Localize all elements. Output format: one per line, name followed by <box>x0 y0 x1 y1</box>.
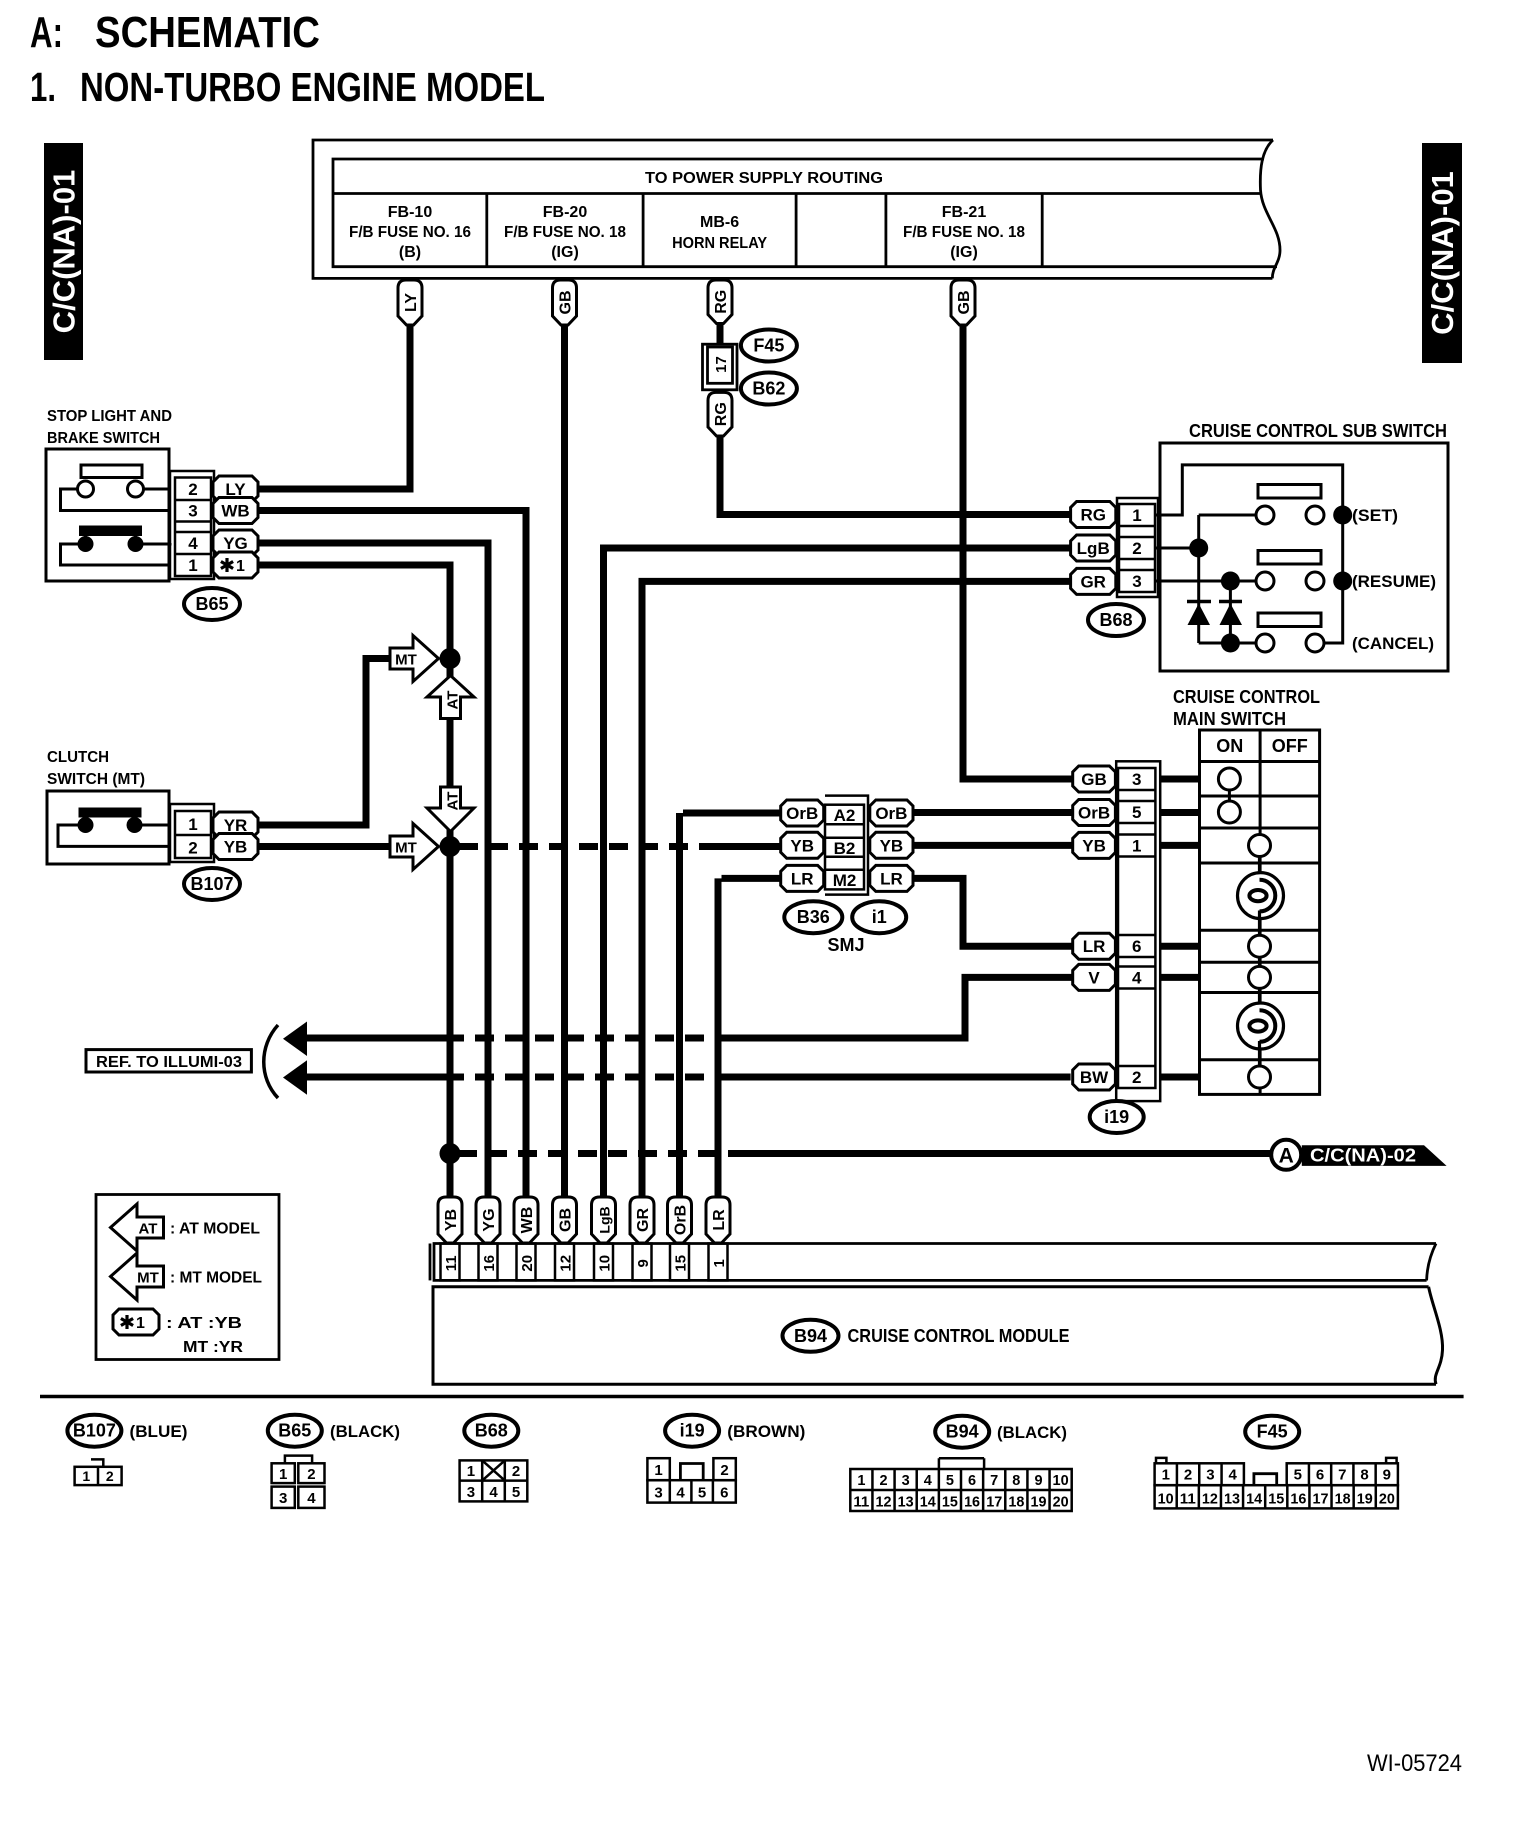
brake switch element <box>61 526 171 566</box>
svg-text:3: 3 <box>654 1485 662 1502</box>
svg-text:: MT MODEL: : MT MODEL <box>170 1270 262 1287</box>
svg-text:1: 1 <box>1132 837 1141 856</box>
svg-text:12: 12 <box>558 1255 575 1272</box>
svg-text:C/C(NA)-01: C/C(NA)-01 <box>47 170 82 334</box>
SMJ joint connector bracket <box>825 796 868 895</box>
svg-text:SWITCH (MT): SWITCH (MT) <box>47 771 145 788</box>
label STOP LIGHT AND BRAKE SWITCH <box>47 408 172 447</box>
connector i19 oval (BROWN) <box>665 1415 805 1447</box>
stop light and brake switch S1 box <box>46 449 169 581</box>
svg-text:13: 13 <box>1224 1492 1240 1508</box>
svg-text:RG: RG <box>713 402 730 426</box>
svg-text:17: 17 <box>986 1495 1002 1511</box>
svg-text:19: 19 <box>1030 1495 1046 1511</box>
svg-text:12: 12 <box>1202 1492 1218 1508</box>
svg-text:MAIN SWITCH: MAIN SWITCH <box>1173 709 1286 729</box>
svg-text:B68: B68 <box>1099 610 1132 630</box>
SET switch contacts <box>1199 485 1398 526</box>
main switch table frame <box>1200 730 1320 1094</box>
svg-text:10: 10 <box>1158 1492 1174 1508</box>
connector B94 oval (module) <box>783 1320 839 1352</box>
main switch contact row LR <box>1249 911 1271 967</box>
svg-text:WB: WB <box>519 1207 536 1234</box>
wire tag YG at B65 pin 4 (trunk to module pin 16) <box>213 530 492 1199</box>
right page banner C/C(NA)-01 <box>1422 143 1462 363</box>
arrow MT lower (MT model) <box>390 824 439 870</box>
connector B107 pin block <box>170 804 214 862</box>
svg-text:: AT MODEL: : AT MODEL <box>170 1221 260 1238</box>
wire tag LR right of SMJ to main switch pin 6 <box>870 865 1073 946</box>
wire YB to C/C(NA)-02 <box>440 1143 1271 1164</box>
svg-text:MT: MT <box>137 1270 159 1287</box>
svg-text:B107: B107 <box>190 874 233 894</box>
footer WI-05724 <box>1367 1750 1462 1777</box>
connector B94 pin layout <box>850 1458 1071 1511</box>
svg-text:YB: YB <box>443 1209 460 1231</box>
fuse cell FB-10 F/B FUSE NO. 16 (B) <box>349 204 471 261</box>
svg-text:GB: GB <box>558 291 575 315</box>
label CRUISE CONTROL SUB SWITCH <box>1189 421 1447 441</box>
svg-text:2: 2 <box>879 1473 887 1489</box>
svg-text:LgB: LgB <box>597 1206 613 1233</box>
svg-text:9: 9 <box>1034 1473 1042 1489</box>
svg-text:20: 20 <box>519 1255 536 1272</box>
wire tag WB at B65 pin 3 (trunk to module pin 20) <box>213 498 530 1200</box>
svg-text:2: 2 <box>512 1463 520 1480</box>
power supply routing box frame <box>313 140 1280 278</box>
svg-text:4: 4 <box>188 534 198 553</box>
svg-text:11: 11 <box>1180 1492 1196 1508</box>
wire RG from MB-6 horn relay <box>708 280 732 345</box>
node REF. TO ILLUMI-03 <box>86 1025 278 1098</box>
svg-text:YB: YB <box>1082 836 1106 855</box>
svg-text:MB-6: MB-6 <box>700 214 739 231</box>
module pin 10 (LgB) tag and cell <box>592 1197 616 1280</box>
svg-text:ON: ON <box>1216 736 1243 756</box>
indicator lamp upper <box>1238 873 1284 919</box>
connector F45 pin layout <box>1155 1458 1398 1509</box>
svg-text:4: 4 <box>307 1490 316 1507</box>
connector B68 oval <box>464 1415 518 1447</box>
connector B107 oval <box>184 868 240 900</box>
svg-text:2: 2 <box>1132 1068 1141 1087</box>
connector i19 pin layout <box>647 1458 735 1502</box>
svg-text:(SET): (SET) <box>1352 506 1398 525</box>
label SMJ <box>827 935 864 955</box>
main switch contact row BW <box>1249 1041 1271 1088</box>
wire tag OrB left of SMJ (trunk to module pin 15) <box>680 800 824 1199</box>
wire tag OrB right of SMJ to main switch pin 5 <box>870 800 1073 826</box>
module pin strip <box>430 1244 1436 1281</box>
connector i19 oval <box>1090 1101 1144 1133</box>
svg-text:2: 2 <box>188 839 197 858</box>
svg-text:17: 17 <box>1312 1492 1328 1508</box>
svg-text:20: 20 <box>1379 1492 1395 1508</box>
wire tag *1 at B65 pin 1 (trunk to module pin 11) <box>213 552 454 1199</box>
svg-text:LR: LR <box>1083 937 1106 956</box>
svg-text:16: 16 <box>1290 1492 1306 1508</box>
svg-text:3: 3 <box>902 1473 910 1489</box>
svg-text:4: 4 <box>1132 969 1142 988</box>
wire tag BW at i19 pin 2 <box>1073 1064 1200 1090</box>
svg-text:YG: YG <box>481 1208 498 1231</box>
svg-text:5: 5 <box>1294 1467 1302 1484</box>
svg-text:6: 6 <box>1132 937 1141 956</box>
svg-text:1: 1 <box>188 815 197 834</box>
main switch contact row V <box>1249 966 1271 1011</box>
label CRUISE CONTROL MAIN SWITCH <box>1173 687 1320 729</box>
svg-text:5: 5 <box>512 1484 520 1501</box>
svg-text:CRUISE CONTROL SUB SWITCH: CRUISE CONTROL SUB SWITCH <box>1189 421 1447 441</box>
svg-text:5: 5 <box>946 1473 954 1489</box>
wire tag YR at B107 pin 1 <box>213 659 391 839</box>
connector B68 pin block <box>1117 498 1158 597</box>
module pin 16 (YG) tag and cell <box>476 1197 500 1280</box>
svg-text:B2: B2 <box>834 839 856 858</box>
svg-text:SCHEMATIC: SCHEMATIC <box>95 8 320 57</box>
svg-text:3: 3 <box>279 1490 287 1507</box>
wire tag YB right of SMJ to main switch pin 1 <box>870 832 1073 858</box>
connector label B62 oval <box>741 373 797 405</box>
svg-text:1: 1 <box>82 1468 90 1484</box>
svg-text:GB: GB <box>558 1208 575 1232</box>
svg-text:15: 15 <box>1268 1492 1284 1508</box>
svg-text:7: 7 <box>1338 1467 1346 1484</box>
svg-text:MT: MT <box>395 840 417 857</box>
svg-text:CRUISE CONTROL: CRUISE CONTROL <box>1173 687 1320 707</box>
clutch switch S2 box <box>47 791 169 864</box>
svg-text:B107: B107 <box>73 1421 116 1441</box>
connector B68 oval <box>1088 604 1144 636</box>
svg-text:9: 9 <box>635 1259 652 1267</box>
svg-text:19: 19 <box>1357 1492 1373 1508</box>
wire GB from FB-21 to main switch pin 3 <box>951 280 1073 779</box>
svg-text:OrB: OrB <box>1078 804 1110 823</box>
svg-text:HORN RELAY: HORN RELAY <box>672 235 767 252</box>
svg-text:17: 17 <box>713 356 730 373</box>
legend tag *1 : AT:YB MT:YR <box>113 1309 243 1356</box>
cruise control module box <box>433 1287 1443 1384</box>
svg-text:9: 9 <box>1383 1467 1391 1484</box>
diode D2 <box>1219 602 1242 626</box>
svg-text:AT: AT <box>139 1221 158 1238</box>
svg-text:14: 14 <box>920 1495 936 1511</box>
svg-text:MT :YR: MT :YR <box>183 1339 243 1356</box>
svg-text:B65: B65 <box>278 1421 311 1441</box>
wire tag LgB at B68 pin 2 (trunk to module pin 10) <box>600 535 1116 1199</box>
svg-text:(BLUE): (BLUE) <box>130 1422 188 1441</box>
svg-text:6: 6 <box>1316 1467 1324 1484</box>
connector B94 oval (BLACK) <box>935 1416 1067 1448</box>
svg-text:18: 18 <box>1335 1492 1351 1508</box>
connector B65 oval (BLACK) <box>268 1415 400 1447</box>
arrow AT lower (AT model) <box>427 787 474 832</box>
svg-text:(B): (B) <box>399 244 421 261</box>
svg-text:4: 4 <box>676 1485 685 1502</box>
svg-text:B36: B36 <box>797 907 830 927</box>
connector i19 pin block <box>1116 761 1160 1101</box>
svg-text:OrB: OrB <box>786 804 818 823</box>
connector B65 oval <box>184 588 240 620</box>
wire tag YB left of SMJ <box>781 832 824 858</box>
arrow AT upper (AT model) <box>427 676 474 719</box>
svg-text:B94: B94 <box>946 1422 979 1442</box>
svg-text:10: 10 <box>1053 1473 1069 1489</box>
svg-text:CLUTCH: CLUTCH <box>47 749 109 766</box>
wire tag RG at B68 pin 1 <box>1071 502 1116 528</box>
svg-text:OFF: OFF <box>1272 736 1308 756</box>
svg-text:YB: YB <box>880 836 904 855</box>
wire RG below fuse to sub switch pin 1 <box>708 389 1071 515</box>
sub switch rail from pin 3 (GR) <box>1155 572 1256 644</box>
svg-text:GB: GB <box>1081 770 1107 789</box>
svg-text:GR: GR <box>635 1208 652 1232</box>
main switch contact row YB <box>1249 835 1271 882</box>
svg-text:YB: YB <box>790 836 814 855</box>
svg-text:7: 7 <box>990 1473 998 1489</box>
junction node (YR/*1 wire) <box>440 648 461 669</box>
wire LY from FB-10 <box>258 280 422 493</box>
svg-text:B65: B65 <box>195 594 228 614</box>
fuse cell FB-21 F/B FUSE NO. 18 (IG) <box>903 204 1025 261</box>
svg-text:MT: MT <box>395 652 417 669</box>
svg-text:V: V <box>1088 968 1100 987</box>
svg-text:3: 3 <box>1206 1467 1214 1484</box>
wire tag V at i19 pin 4 <box>1073 964 1200 990</box>
module pin 9 (GR) tag and cell <box>630 1197 654 1280</box>
svg-text:20: 20 <box>1053 1495 1069 1511</box>
svg-text:6: 6 <box>968 1473 976 1489</box>
svg-text:15: 15 <box>673 1255 690 1272</box>
svg-text:12: 12 <box>876 1495 892 1511</box>
svg-text:GR: GR <box>1080 572 1106 591</box>
svg-text:1: 1 <box>1162 1467 1170 1484</box>
legend box <box>96 1195 279 1360</box>
module pin 20 (WB) tag and cell <box>514 1197 538 1280</box>
svg-text:18: 18 <box>1008 1495 1024 1511</box>
svg-text:1: 1 <box>1132 506 1141 525</box>
svg-text:4: 4 <box>1229 1467 1238 1484</box>
svg-text:3: 3 <box>188 502 197 521</box>
arrow MT upper (MT model) <box>390 636 439 682</box>
svg-text:FB-10: FB-10 <box>388 204 433 221</box>
legend arrow MT : MT MODEL <box>111 1253 263 1300</box>
svg-text:GB: GB <box>956 291 973 315</box>
svg-text:2: 2 <box>106 1468 114 1484</box>
connector B36 oval <box>784 901 842 933</box>
wire tag OrB at i19 pin 5 <box>1073 800 1200 826</box>
svg-text:A2: A2 <box>834 806 856 825</box>
connector B65 pin block <box>170 471 214 579</box>
wire tag LR at i19 pin 6 <box>1073 933 1200 959</box>
svg-text:OrB: OrB <box>673 1205 690 1235</box>
module pin 12 (GB) tag and cell <box>553 1197 577 1280</box>
svg-text:F/B FUSE NO. 18: F/B FUSE NO. 18 <box>903 224 1025 241</box>
svg-text:6: 6 <box>720 1485 728 1502</box>
svg-text:15: 15 <box>942 1495 958 1511</box>
svg-text:OrB: OrB <box>875 804 907 823</box>
label TO POWER SUPPLY ROUTING <box>645 170 883 187</box>
svg-text:(IG): (IG) <box>950 244 978 261</box>
svg-text:8: 8 <box>1012 1473 1020 1489</box>
svg-text:i19: i19 <box>680 1421 705 1441</box>
svg-text:C/C(NA)-01: C/C(NA)-01 <box>1425 171 1460 335</box>
module pin 15 (OrB) tag and cell <box>668 1197 692 1280</box>
stop light switch element <box>61 465 171 511</box>
off-page connector A C/C(NA)-02 <box>1271 1140 1446 1170</box>
svg-text:FB-20: FB-20 <box>543 204 588 221</box>
svg-text:YB: YB <box>224 838 248 857</box>
svg-text:4: 4 <box>924 1473 932 1489</box>
svg-text:LR: LR <box>711 1209 728 1231</box>
svg-text:(BLACK): (BLACK) <box>330 1422 400 1441</box>
legend arrow AT : AT MODEL <box>111 1204 261 1251</box>
wire tag YB at i19 pin 1 <box>1073 832 1200 858</box>
clutch switch element <box>58 808 170 847</box>
svg-text:1: 1 <box>654 1462 662 1479</box>
svg-text:BW: BW <box>1080 1068 1109 1087</box>
svg-text:1: 1 <box>188 556 197 575</box>
connector B107 pin layout <box>75 1459 122 1485</box>
wire tag GB at i19 pin 3 <box>1073 766 1200 792</box>
svg-text:F45: F45 <box>753 336 784 356</box>
svg-text:AT: AT <box>445 792 462 811</box>
cruise control sub switch box <box>1160 443 1448 671</box>
svg-text:B68: B68 <box>475 1421 508 1441</box>
svg-text:C/C(NA)-02: C/C(NA)-02 <box>1310 1146 1416 1166</box>
svg-text:1: 1 <box>711 1259 728 1267</box>
wire GB from FB-20 (trunk to module pin 12) <box>553 280 577 1199</box>
title: A: SCHEMATIC <box>30 8 320 57</box>
svg-text:YG: YG <box>223 534 248 553</box>
svg-text:NON-TURBO ENGINE MODEL: NON-TURBO ENGINE MODEL <box>80 64 545 110</box>
svg-text:3: 3 <box>1132 770 1141 789</box>
svg-text:2: 2 <box>1132 539 1141 558</box>
svg-text:(CANCEL): (CANCEL) <box>1352 634 1434 653</box>
svg-text:FB-21: FB-21 <box>942 204 987 221</box>
sub switch left rail from pin 2 (LgB) <box>1155 515 1208 643</box>
svg-text:BRAKE SWITCH: BRAKE SWITCH <box>47 430 160 447</box>
cell MB-6 HORN RELAY <box>672 214 767 252</box>
module pin 11 (YB) tag and cell <box>438 1197 462 1280</box>
svg-text:: AT :YB: : AT :YB <box>166 1315 242 1332</box>
svg-text:RG: RG <box>1080 506 1106 525</box>
svg-text:AT: AT <box>445 691 462 710</box>
RESUME switch contacts <box>1256 551 1436 592</box>
svg-text:i1: i1 <box>872 907 887 927</box>
connector B68 pin layout <box>460 1460 528 1501</box>
sub switch bottom rail <box>1199 634 1256 653</box>
svg-text:LR: LR <box>880 869 903 888</box>
svg-text:4: 4 <box>489 1484 498 1501</box>
svg-text:WI-05724: WI-05724 <box>1367 1750 1462 1777</box>
separator line <box>40 1395 1464 1399</box>
svg-text:LgB: LgB <box>1077 539 1110 558</box>
svg-text:2: 2 <box>307 1466 315 1483</box>
CANCEL switch contacts <box>1256 613 1434 653</box>
svg-text:STOP LIGHT AND: STOP LIGHT AND <box>47 408 172 425</box>
dashed wire YB from junction to SMJ <box>450 843 781 850</box>
fuse cell FB-20 F/B FUSE NO. 18 (IG) <box>504 204 626 261</box>
indicator lamp lower <box>1238 1003 1284 1049</box>
svg-text:CRUISE CONTROL MODULE: CRUISE CONTROL MODULE <box>848 1326 1070 1346</box>
svg-text:B94: B94 <box>794 1326 827 1346</box>
wire tag GR at B68 pin 3 (trunk to module pin 9) <box>639 568 1116 1199</box>
svg-text:1.: 1. <box>30 64 56 110</box>
svg-text:16: 16 <box>964 1495 980 1511</box>
connector B107 oval (BLUE) <box>67 1415 187 1447</box>
svg-text:(RESUME): (RESUME) <box>1352 572 1436 591</box>
svg-text:13: 13 <box>898 1495 914 1511</box>
svg-text:11: 11 <box>443 1255 460 1271</box>
svg-text:A: A <box>1279 1145 1294 1168</box>
svg-text:SMJ: SMJ <box>827 935 864 955</box>
wire tag YB at B107 pin 2 <box>213 834 391 860</box>
svg-text:14: 14 <box>1246 1492 1262 1508</box>
wire BW dashed from illumination <box>283 1060 1071 1095</box>
svg-text:11: 11 <box>853 1495 869 1511</box>
connector i1 oval <box>852 901 906 933</box>
svg-text:(BROWN): (BROWN) <box>727 1422 805 1441</box>
main switch ON contacts (pins 3,5) <box>1218 768 1240 823</box>
svg-text:10: 10 <box>597 1255 614 1272</box>
svg-text:3: 3 <box>467 1484 475 1501</box>
junction node (YB clutch wire) <box>440 836 461 857</box>
label CRUISE CONTROL MODULE <box>848 1326 1070 1346</box>
svg-text:F/B FUSE NO. 18: F/B FUSE NO. 18 <box>504 224 626 241</box>
svg-text:A:: A: <box>30 8 63 57</box>
svg-text:1: 1 <box>279 1466 287 1483</box>
svg-text:1: 1 <box>857 1473 865 1489</box>
svg-text:1: 1 <box>236 558 245 575</box>
svg-text:8: 8 <box>1360 1467 1368 1484</box>
svg-text:F/B FUSE NO. 16: F/B FUSE NO. 16 <box>349 224 471 241</box>
svg-text:3: 3 <box>1132 572 1141 591</box>
svg-text:M2: M2 <box>833 871 857 890</box>
label CLUTCH SWITCH (MT) <box>47 749 145 788</box>
subtitle: 1. NON-TURBO ENGINE MODEL <box>30 64 545 110</box>
svg-text:(BLACK): (BLACK) <box>997 1423 1067 1442</box>
svg-text:REF. TO ILLUMI-03: REF. TO ILLUMI-03 <box>96 1054 242 1071</box>
svg-text:i19: i19 <box>1104 1107 1129 1127</box>
left page banner C/C(NA)-01 <box>44 143 83 360</box>
wire between AT arrows <box>447 719 454 788</box>
connector label F45 oval <box>741 330 797 362</box>
svg-text:5: 5 <box>1132 803 1141 822</box>
svg-text:RG: RG <box>713 290 730 314</box>
svg-text:WB: WB <box>221 502 249 521</box>
svg-text:LR: LR <box>791 869 814 888</box>
svg-text:B62: B62 <box>752 379 785 399</box>
sub switch top rail from pin 1 and right rail <box>1155 465 1343 643</box>
svg-text:1: 1 <box>136 1315 145 1332</box>
diode D1 <box>1187 602 1211 626</box>
svg-text:5: 5 <box>698 1485 706 1502</box>
svg-text:2: 2 <box>188 480 197 499</box>
svg-text:1: 1 <box>467 1463 475 1480</box>
fuse F45 no.17 <box>703 344 738 390</box>
wire tag LR left of SMJ (trunk to module pin 1) <box>718 865 824 1199</box>
svg-text:2: 2 <box>720 1462 728 1479</box>
svg-text:TO POWER SUPPLY ROUTING: TO POWER SUPPLY ROUTING <box>645 170 883 187</box>
svg-text:2: 2 <box>1184 1467 1192 1484</box>
connector B65 pin layout <box>272 1456 325 1508</box>
svg-text:16: 16 <box>481 1255 498 1272</box>
wire tag LY at B65 pin 2 <box>213 476 258 502</box>
svg-text:LY: LY <box>403 293 420 312</box>
svg-text:(IG): (IG) <box>551 244 579 261</box>
svg-text:F45: F45 <box>1257 1422 1288 1442</box>
